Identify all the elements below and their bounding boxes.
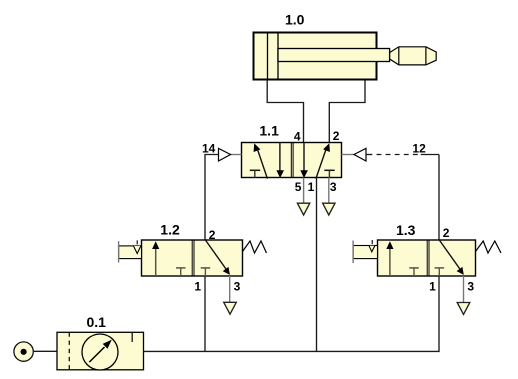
valve 1.1 left chamber down arrow (276, 143, 284, 179)
valve 1.2 body (3/2-way) (142, 240, 243, 276)
wire valve 1.1 port 1 to supply line (316, 178, 318, 352)
wire valve 1.1 port 3 to exhaust (328, 178, 330, 204)
cylinder 1.0 rod knob (390, 47, 437, 65)
valve 1.3 manual actuator (353, 240, 377, 263)
valve 1.3 left chamber blocked port T (409, 268, 419, 276)
valve 1.1 right pilot triangle (port 12) (342, 148, 367, 161)
cylinder 1.0 body (254, 33, 377, 80)
exhaust triangle valve 1.2 port 3 (224, 302, 237, 314)
svg-text:1.2: 1.2 (160, 221, 180, 237)
svg-text:1: 1 (308, 180, 315, 194)
svg-text:3: 3 (234, 280, 241, 294)
svg-text:12: 12 (412, 141, 426, 155)
compressed air source (14, 342, 33, 361)
wire valve 1.2 port 3 to exhaust (229, 276, 231, 302)
valve 1.1 body (5/2-way) (242, 143, 342, 178)
svg-text:14: 14 (202, 141, 216, 155)
svg-text:5: 5 (295, 180, 302, 194)
valve 1.2 manual actuator (119, 240, 142, 262)
valve 1.2 right chamber blocked port T (201, 268, 211, 276)
svg-text:1.0: 1.0 (285, 11, 305, 27)
valve 1.1 right chamber blocked port T (324, 170, 334, 177)
valve 1.1 right chamber diagonal arrow (1 to 2) (316, 143, 330, 178)
svg-text:1: 1 (429, 280, 436, 294)
air service unit 0.1 gauge (82, 334, 118, 370)
valve 1.2 return spring (243, 241, 267, 253)
svg-text:2: 2 (443, 226, 450, 240)
valve 1.3 right chamber diagonal arrow (2 to 3) (439, 240, 464, 275)
air service unit 0.1 body (57, 332, 144, 370)
svg-text:1.1: 1.1 (259, 122, 279, 138)
valve 1.3 return spring (476, 241, 502, 253)
valve 1.1 left pilot triangle (port 14) (219, 148, 242, 161)
svg-text:1: 1 (194, 280, 201, 294)
supply line from unit 0.1 to valve 1.3 port 1 (144, 350, 440, 352)
wire cylinder cap-end to valve 1.1 port 4 (267, 81, 303, 143)
svg-text:3: 3 (330, 180, 337, 194)
valve 1.1 right chamber down arrow (4 to 5) (300, 143, 308, 179)
wire cylinder rod-end to valve 1.1 port 2 (329, 81, 365, 143)
valve 1.1 left chamber diagonal arrow (254, 143, 268, 178)
valve 1.2 right chamber diagonal arrow (2 to 3) (205, 240, 230, 275)
svg-text:2: 2 (333, 129, 340, 143)
wire valve 1.3 port 1 to supply line (438, 276, 440, 352)
valve 1.2 left chamber up arrow (152, 241, 159, 276)
svg-text:3: 3 (467, 280, 474, 294)
valve 1.3 right chamber blocked port T (435, 268, 445, 276)
exhaust triangle valve 1.3 port 3 (457, 303, 470, 315)
valve 1.3 body (3/2-way) (378, 240, 476, 276)
valve 1.1 left chamber blocked port T (250, 170, 260, 177)
wire valve 1.2 port 1 to supply line (204, 276, 206, 351)
cylinder 1.0 piston (268, 33, 279, 80)
valve 1.2 left chamber blocked port T (176, 268, 186, 276)
svg-text:1.3: 1.3 (396, 222, 416, 238)
valve 1.3 left chamber up arrow (386, 241, 393, 276)
wire pilot 12 to valve 1.3 port 2 (438, 155, 440, 241)
wire valve 1.3 port 3 to exhaust (463, 276, 465, 303)
svg-text:4: 4 (294, 130, 301, 144)
wire pilot 12 dashed control line (366, 154, 439, 156)
exhaust triangle valve 1.1 port 5 (297, 203, 309, 215)
wire valve 1.1 port 5 to exhaust (303, 178, 305, 204)
cylinder 1.0 piston rod (278, 49, 390, 62)
svg-text:2: 2 (209, 228, 216, 242)
wire pilot 14 to valve 1.2 port 2 (205, 155, 219, 241)
wire source to unit 0.1 (33, 350, 57, 352)
svg-text:0.1: 0.1 (87, 314, 107, 330)
exhaust triangle valve 1.1 port 3 (323, 203, 335, 215)
